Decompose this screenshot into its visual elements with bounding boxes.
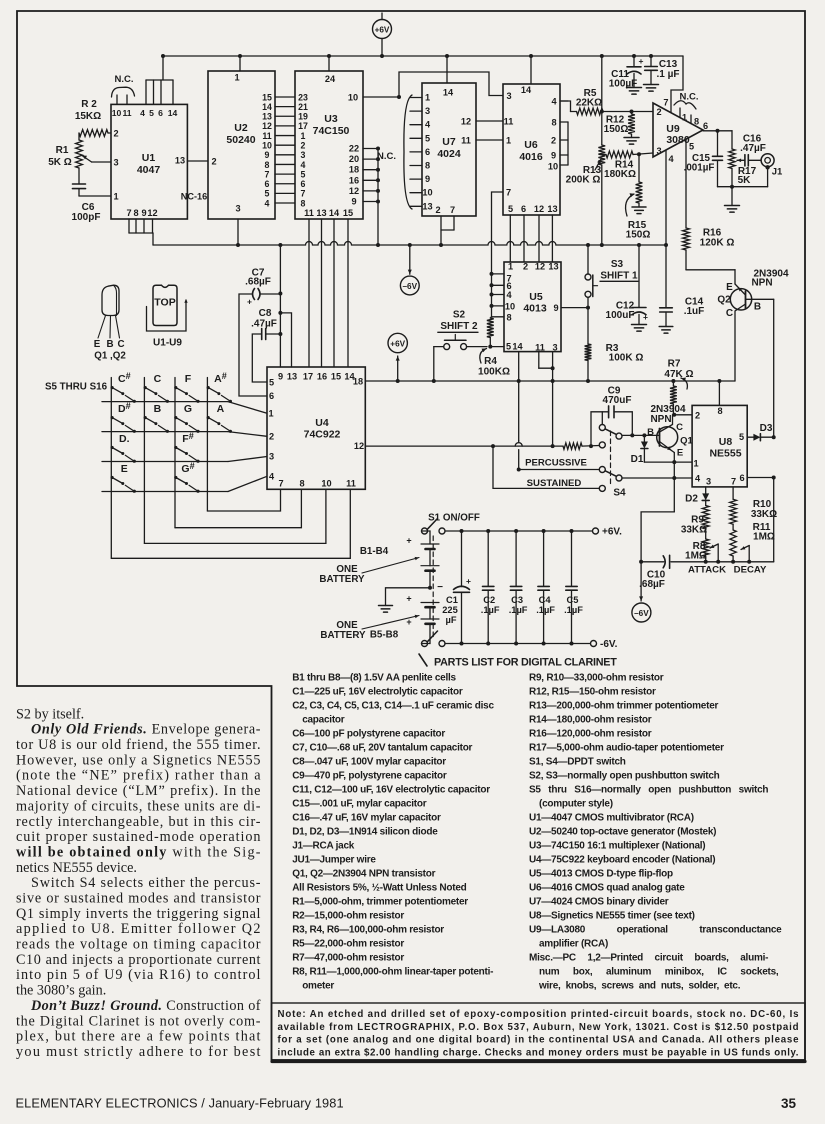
svg-text:G#: G# — [181, 461, 194, 475]
svg-text:R9, R10—33,000-ohm resistor: R9, R10—33,000-ohm resistor — [529, 673, 664, 684]
svg-text:.001µF: .001µF — [684, 163, 715, 174]
wire output ground rail — [718, 185, 768, 212]
wire keyboard col2 to U4 pin10 — [144, 489, 326, 543]
wires U2 outputs to U3 inputs — [262, 92, 295, 208]
svg-text:3: 3 — [425, 106, 430, 116]
op-amp U9 3080 — [653, 98, 708, 165]
keyboard switch G (S5-S16) — [174, 403, 199, 433]
svg-text:+6V: +6V — [375, 26, 390, 35]
svg-text:NPN: NPN — [751, 278, 772, 289]
node junction on +6V bus — [649, 54, 653, 58]
-6V supply circle (bottom) — [632, 562, 651, 622]
svg-text:R1—5,000-ohm, trimmer potentio: R1—5,000-ohm, trimmer potentiometer — [292, 897, 468, 908]
svg-text:cuit proper sustained-mode ope: cuit proper sustained-mode operation — [16, 829, 261, 845]
svg-text:16: 16 — [349, 175, 359, 185]
svg-text:+6V: +6V — [390, 340, 405, 349]
svg-text:18: 18 — [353, 376, 363, 386]
svg-text:U9—LA3080 operational transcon: U9—LA3080 operational transconductance — [529, 925, 782, 936]
svg-text:1: 1 — [425, 93, 430, 103]
wire U3 unused outputs tied to -6V — [363, 147, 380, 246]
svg-text:C#: C# — [118, 371, 131, 385]
resistor R3 — [585, 308, 644, 381]
svg-text:DECAY: DECAY — [734, 565, 767, 576]
svg-text:Note: An etched and drilled se: Note: An etched and drilled set of epoxy… — [278, 1009, 799, 1020]
battery center tap to ground — [379, 582, 444, 612]
svg-text:C11, C12—100 uF, 16V electroly: C11, C12—100 uF, 16V electrolytic capaci… — [292, 785, 490, 796]
svg-text:18: 18 — [349, 165, 359, 175]
svg-text:S2, S3—normally open pushbutto: S2, S3—normally open pushbutton switch — [529, 771, 720, 782]
capacitor C6 — [72, 168, 111, 223]
svg-text:11: 11 — [346, 478, 356, 488]
svg-text:2: 2 — [301, 140, 306, 150]
svg-text:D1: D1 — [631, 454, 644, 465]
svg-text:47K Ω: 47K Ω — [664, 369, 693, 380]
svg-text:5K: 5K — [738, 175, 752, 186]
svg-text:4: 4 — [269, 471, 275, 481]
svg-text:C3: C3 — [511, 595, 523, 605]
svg-text:7: 7 — [663, 98, 668, 108]
svg-text:R16—120,000-ohm resistor: R16—120,000-ohm resistor — [529, 729, 652, 740]
svg-text:2: 2 — [523, 262, 528, 272]
wire +6V output rail — [445, 527, 622, 538]
wire U6 pin7 control to R4 chain — [492, 192, 504, 274]
svg-text:8: 8 — [694, 117, 699, 127]
svg-text:13: 13 — [316, 208, 326, 218]
svg-text:8: 8 — [425, 161, 430, 171]
svg-text:17: 17 — [298, 121, 308, 131]
svg-text:applied to U8. Emitter followe: applied to U8. Emitter follower Q2 — [16, 921, 261, 937]
wire -6V output rail — [445, 639, 618, 650]
svg-text:100K Ω: 100K Ω — [609, 353, 644, 364]
svg-text:U2: U2 — [234, 122, 248, 134]
trimmer R1 — [48, 133, 111, 168]
svg-text:.1 µF: .1 µF — [657, 69, 680, 80]
svg-text:7: 7 — [450, 205, 455, 215]
svg-text:5: 5 — [301, 169, 306, 179]
wire U3 pin24 to +6V bus — [328, 56, 330, 71]
svg-text:10: 10 — [112, 108, 122, 118]
IC U3 74C150 multiplexer — [295, 71, 363, 219]
svg-text:13: 13 — [287, 372, 297, 382]
svg-text:+: + — [247, 297, 252, 307]
svg-text:15KΩ: 15KΩ — [75, 111, 101, 122]
transistor Q2 2N3904 — [717, 269, 789, 382]
svg-text:R 2: R 2 — [81, 99, 97, 110]
svg-text:8: 8 — [551, 118, 556, 128]
wire U2 pin1 to +6V bus — [239, 56, 241, 71]
svg-text:U6—4016 CMOS quad analog gate: U6—4016 CMOS quad analog gate — [529, 883, 685, 894]
svg-text:C8—.047 uF, 100V mylar capacit: C8—.047 uF, 100V mylar capacitor — [292, 757, 446, 768]
svg-text:7: 7 — [126, 208, 131, 218]
wire U6 pin14 to +6V bus — [530, 56, 532, 84]
svg-text:12: 12 — [461, 117, 471, 127]
resistor R2 — [75, 99, 111, 136]
svg-text:74C150: 74C150 — [313, 125, 350, 137]
svg-text:Q1 ,Q2: Q1 ,Q2 — [94, 351, 126, 362]
parts list left column — [292, 673, 494, 992]
svg-text:C1—225 uF, 16V electrolytic ca: C1—225 uF, 16V electrolytic capacitor — [292, 687, 463, 698]
diode D2 — [685, 487, 709, 505]
svg-text:120K Ω: 120K Ω — [700, 238, 735, 249]
wire U7 pin11 to U6 pin1 — [476, 139, 503, 141]
svg-text:C: C — [726, 308, 733, 319]
svg-text:4016: 4016 — [519, 151, 543, 163]
wire U5 pin14 to +6V rail and percussive feed — [515, 352, 522, 470]
svg-text:1: 1 — [268, 408, 273, 418]
IC U6 4016 quad analog gate — [503, 84, 560, 215]
svg-text:11: 11 — [262, 131, 271, 141]
svg-text:6: 6 — [703, 121, 708, 131]
svg-text:14: 14 — [329, 208, 340, 218]
svg-text:11: 11 — [461, 136, 471, 146]
keyboard switch A (S5-S16) — [207, 403, 232, 433]
node junction on -6V bus — [586, 243, 590, 247]
diode D1 — [631, 435, 648, 465]
switch S1 ON/OFF pole A — [422, 513, 480, 535]
svg-text:U8: U8 — [719, 436, 733, 448]
svg-text:150Ω: 150Ω — [604, 124, 629, 135]
node junction on -6V bus — [600, 243, 604, 247]
svg-text:U1: U1 — [142, 152, 156, 164]
svg-text:B: B — [754, 302, 761, 313]
svg-text:100uF: 100uF — [606, 310, 635, 321]
IC U5 4013 flip-flop — [504, 262, 561, 353]
svg-text:SUSTAINED: SUSTAINED — [527, 478, 582, 489]
node junction on +6V rail — [432, 379, 436, 383]
capacitor C10 — [639, 555, 670, 590]
svg-text:wire, knobs, screws and nuts,: wire, knobs, screws and nuts, solder, et… — [538, 981, 741, 992]
resistor R5 — [560, 88, 653, 115]
svg-text:All Resistors 5%, ½-Watt Unles: All Resistors 5%, ½-Watt Unless Noted — [292, 883, 466, 894]
node junction on +6V rail — [717, 379, 721, 383]
svg-text:tor U8 is our old friend, the: tor U8 is our old friend, the 555 timer. — [16, 737, 261, 753]
wire -6V bus — [153, 242, 666, 246]
svg-text:1MΩ: 1MΩ — [685, 551, 707, 562]
svg-text:3: 3 — [269, 452, 274, 462]
N.C. pins 1,8 of U9 — [674, 92, 699, 127]
svg-text:J1: J1 — [772, 167, 783, 178]
diode D3 — [747, 423, 776, 441]
svg-text:A#: A# — [214, 371, 227, 385]
svg-text:10: 10 — [548, 162, 558, 172]
svg-text:3: 3 — [656, 146, 661, 156]
svg-text:16: 16 — [317, 372, 327, 382]
svg-text:9: 9 — [141, 208, 146, 218]
transistor Q1 2N3904 — [647, 404, 693, 459]
svg-text:C8: C8 — [259, 308, 272, 319]
svg-text:R1: R1 — [56, 145, 69, 156]
svg-text:C2: C2 — [483, 595, 495, 605]
svg-text:10: 10 — [321, 478, 331, 488]
wire S4 common to emitter node — [622, 477, 674, 479]
svg-text:will be obtained only with the: will be obtained only with the Sig- — [16, 844, 261, 860]
svg-text:2: 2 — [269, 431, 274, 441]
svg-text:10: 10 — [262, 140, 272, 150]
svg-text:35: 35 — [781, 1096, 797, 1111]
svg-text:4: 4 — [506, 290, 512, 300]
wire row2 to U4 pin2 — [228, 432, 267, 437]
svg-text:4: 4 — [265, 198, 270, 208]
svg-text:20: 20 — [349, 154, 359, 164]
svg-text:E: E — [94, 339, 101, 350]
wire Q2 base down to D3/U8 area — [773, 299, 775, 437]
svg-text:PARTS LIST FOR DIGITAL CLARINE: PARTS LIST FOR DIGITAL CLARINET — [434, 657, 617, 669]
wire U9 pin4 to -6V bus — [665, 150, 667, 245]
svg-text:E: E — [677, 448, 683, 459]
wire +6V bus — [163, 55, 683, 57]
transistor package drawing Q1,Q2 — [94, 285, 127, 361]
svg-text:21: 21 — [298, 102, 308, 112]
svg-text:14: 14 — [512, 342, 523, 352]
svg-text:(note the “NE” prefix) rather: (note the “NE” prefix) rather than a — [16, 768, 261, 784]
svg-text:U1-U9: U1-U9 — [153, 338, 182, 349]
svg-text:.1µF: .1µF — [536, 605, 555, 615]
wire U8 pin6 to Q2 base line — [747, 476, 776, 480]
keyboard switch C (S5-S16) — [144, 373, 169, 403]
-6V supply circle — [400, 245, 419, 295]
svg-text:A: A — [217, 403, 225, 415]
node junction on -6V bus — [408, 243, 412, 247]
svg-text:7: 7 — [278, 478, 283, 488]
svg-text:100KΩ: 100KΩ — [478, 367, 510, 378]
svg-text:6: 6 — [301, 179, 306, 189]
wire S4 common net down to -6V — [641, 512, 674, 562]
potentiometer R8 attack — [685, 529, 718, 562]
wire U9 pin5 down to R16 — [685, 139, 687, 228]
svg-text:R14—180,000-ohm resistor: R14—180,000-ohm resistor — [529, 715, 652, 726]
svg-text:U4: U4 — [315, 417, 329, 429]
svg-text:13: 13 — [175, 156, 185, 166]
svg-text:Don’t Buzz! Ground. Constructi: Don’t Buzz! Ground. Construction of — [30, 998, 261, 1014]
parts list right column — [529, 673, 782, 992]
svg-text:J1—RCA jack: J1—RCA jack — [292, 841, 355, 852]
N.C. pins 10,11 of U1 — [112, 74, 135, 104]
svg-text:470uF: 470uF — [603, 395, 632, 406]
body text column — [16, 706, 261, 1060]
svg-text:R7—47,000-ohm resistor: R7—47,000-ohm resistor — [292, 953, 404, 964]
node junction on -6V bus — [439, 243, 443, 247]
svg-text:50240: 50240 — [226, 134, 255, 146]
svg-text:BATTERY: BATTERY — [319, 574, 365, 585]
svg-text:U6: U6 — [524, 139, 538, 151]
svg-text:the Digital Clarinet is not ov: the Digital Clarinet is not overly com- — [16, 1013, 261, 1029]
capacitor C13 to ground — [644, 56, 680, 91]
svg-text:ELEMENTARY ELECTRONICS / Janua: ELEMENTARY ELECTRONICS / January-Februar… — [16, 1096, 344, 1111]
wire Q1 collector to U8 pin2 — [672, 413, 692, 417]
svg-text:U7—4024 CMOS binary divider: U7—4024 CMOS binary divider — [529, 897, 669, 908]
svg-text:2: 2 — [113, 129, 118, 139]
capacitor C12 electrolytic to ground — [606, 245, 648, 331]
svg-text:1: 1 — [113, 192, 118, 202]
svg-text:µF: µF — [445, 615, 456, 625]
svg-text:sive or sustained modes and tr: sive or sustained modes and transistor — [16, 891, 261, 907]
svg-text:4047: 4047 — [137, 164, 161, 176]
wire U9 pin7 feed — [671, 56, 683, 113]
svg-text:+: + — [406, 594, 411, 604]
switch S4 pole 2 — [599, 467, 626, 499]
svg-text:11: 11 — [304, 208, 314, 218]
svg-text:plex, but there are a few poin: plex, but there are a few points that — [16, 1029, 261, 1045]
svg-text:D.: D. — [119, 433, 130, 445]
svg-text:C: C — [676, 422, 683, 433]
svg-text:33KΩ: 33KΩ — [681, 525, 707, 536]
svg-text:5K Ω: 5K Ω — [48, 157, 72, 168]
svg-text:10: 10 — [348, 93, 358, 103]
wire +6V switched rail (U4 pin18 across to Q2 collector) — [365, 380, 735, 382]
svg-text:E: E — [726, 282, 733, 293]
wire percussive line — [517, 458, 600, 472]
svg-text:6: 6 — [269, 391, 274, 401]
keyboard switch F (S5-S16) — [174, 373, 199, 403]
capacitor C2 — [481, 529, 500, 646]
svg-text:S2: S2 — [453, 310, 466, 321]
svg-text:15: 15 — [262, 92, 272, 102]
svg-text:6: 6 — [739, 473, 744, 483]
node junction on +6V rail — [586, 379, 590, 383]
keyboard switch A# (S5-S16) — [207, 371, 232, 403]
svg-text:9: 9 — [265, 150, 270, 160]
svg-text:6: 6 — [158, 108, 163, 118]
svg-text:19: 19 — [298, 112, 308, 122]
svg-text:4: 4 — [695, 474, 701, 484]
node junction on -6V bus — [637, 243, 641, 247]
wire Q1 base node — [622, 433, 660, 437]
svg-text:reads the voltage on timing ca: reads the voltage on timing capacitor — [16, 937, 261, 953]
node junction on +6V bus — [445, 54, 449, 58]
svg-text:1: 1 — [506, 136, 511, 146]
svg-text:2: 2 — [211, 157, 216, 167]
svg-text:C15—.001 uF, mylar capacitor: C15—.001 uF, mylar capacitor — [292, 799, 427, 810]
svg-text:5: 5 — [689, 142, 694, 152]
svg-text:8: 8 — [506, 312, 511, 322]
svg-text:8: 8 — [717, 406, 722, 416]
svg-text:11: 11 — [122, 108, 131, 118]
svg-text:5: 5 — [269, 378, 274, 388]
svg-text:C2, C3, C4, C5, C13, C14—.1 uF: C2, C3, C4, C5, C13, C14—.1 uF ceramic d… — [292, 701, 494, 712]
switch S4 pole 1 — [599, 412, 622, 448]
svg-text:+6V.: +6V. — [602, 527, 622, 538]
svg-text:amplifier (RCA): amplifier (RCA) — [539, 939, 608, 950]
wire U4 pin12 keyboard data line with R6 — [365, 443, 599, 449]
S4 gang dashed link — [610, 431, 612, 486]
svg-text:22: 22 — [349, 144, 359, 154]
svg-text:5: 5 — [425, 133, 430, 143]
svg-text:include an extra $2.00 handlin: include an extra $2.00 handling charge. … — [278, 1047, 799, 1058]
svg-text:Q1, Q2—2N3904 NPN transistor: Q1, Q2—2N3904 NPN transistor — [292, 869, 435, 880]
svg-text:+: + — [466, 576, 471, 586]
svg-text:5: 5 — [739, 432, 744, 442]
svg-text:ATTACK: ATTACK — [688, 565, 726, 576]
svg-text:11: 11 — [504, 117, 514, 127]
node junction on -6V bus — [236, 243, 240, 247]
battery B1-B4 — [360, 531, 439, 588]
svg-text:180KΩ: 180KΩ — [604, 169, 636, 180]
svg-text:8: 8 — [301, 198, 306, 208]
keyboard row wires — [102, 401, 228, 403]
svg-text:U5: U5 — [529, 291, 543, 303]
capacitor C4 — [536, 529, 555, 646]
svg-text:1: 1 — [234, 73, 239, 83]
svg-text:2: 2 — [435, 205, 440, 215]
svg-text:15: 15 — [331, 372, 341, 382]
svg-text:C6—100 pF polystyrene capacito: C6—100 pF polystyrene capacitor — [292, 729, 445, 740]
svg-text:U3: U3 — [324, 113, 338, 125]
svg-text:NPN: NPN — [650, 414, 671, 425]
svg-text:R5—22,000-ohm resistor: R5—22,000-ohm resistor — [292, 939, 404, 950]
wire U1 pins 7,8,9,12 to -6V bus — [129, 219, 153, 245]
svg-text:.1uF: .1uF — [684, 306, 705, 317]
svg-text:12: 12 — [535, 262, 545, 272]
svg-text:C9—470 pF, polystyrene capacit: C9—470 pF, polystyrene capacitor — [292, 771, 447, 782]
svg-text:B1 thru B8—(8) 1.5V AA penlite: B1 thru B8—(8) 1.5V AA penlite cells — [292, 673, 456, 684]
svg-text:TOP: TOP — [154, 297, 175, 309]
wire row3 to U4 pin3 — [228, 457, 267, 462]
svg-text:However, use only a Signetics: However, use only a Signetics NE555 — [16, 752, 261, 768]
svg-text:5: 5 — [506, 342, 511, 352]
svg-text:the 3080’s gain.: the 3080’s gain. — [16, 983, 106, 999]
resistor R9 — [681, 500, 709, 535]
svg-text:4: 4 — [551, 97, 557, 107]
svg-text:N.C.: N.C. — [377, 151, 396, 162]
wire U9 output node — [703, 129, 732, 133]
svg-text:100pF: 100pF — [72, 212, 101, 223]
pushbutton S2 SHIFT 2 — [434, 310, 504, 382]
svg-text:C4: C4 — [539, 595, 552, 605]
capacitor C1 electrolytic — [442, 529, 471, 646]
wire U7 pin12 to U6 pin11 — [476, 120, 503, 122]
svg-text:200K Ω: 200K Ω — [566, 175, 601, 186]
svg-text:BATTERY: BATTERY — [320, 630, 366, 641]
svg-text:ometer: ometer — [302, 981, 334, 992]
node junction on -6V bus — [664, 243, 668, 247]
S1 gang dashed link — [432, 536, 434, 637]
svg-text:.1µF: .1µF — [564, 605, 583, 615]
node junction on +6V bus — [529, 54, 533, 58]
wire U5 pin9 to S3/R3 node — [561, 306, 590, 310]
svg-text:NE555: NE555 — [709, 448, 741, 460]
svg-text:B: B — [154, 403, 162, 415]
svg-text:2: 2 — [551, 136, 556, 146]
svg-text:3: 3 — [506, 91, 511, 101]
capacitor C8 — [251, 308, 280, 382]
wires U6 outputs down to U5 — [509, 215, 511, 262]
svg-text:7: 7 — [731, 477, 736, 487]
wire Q1 emitter chain to U8 pins 1,4 — [644, 453, 692, 512]
svg-text:S3: S3 — [611, 259, 624, 270]
resistor R7 — [664, 359, 693, 415]
svg-text:majority of circuits, these un: majority of circuits, these units are di… — [16, 798, 261, 814]
svg-text:4: 4 — [140, 108, 145, 118]
wire attack-decay rail — [671, 478, 774, 576]
svg-text:14: 14 — [443, 88, 454, 98]
svg-text:into pin 5 of U9 (via R16) to: into pin 5 of U9 (via R16) to control — [16, 967, 261, 983]
node junction on +6V rail — [551, 379, 555, 383]
svg-text:9: 9 — [425, 174, 430, 184]
svg-text:3: 3 — [301, 150, 306, 160]
svg-text:U8—Signetics NE555 timer (see: U8—Signetics NE555 timer (see text) — [529, 911, 695, 922]
label ONE BATTERY lower — [320, 615, 419, 641]
svg-text:U2—50240 top-octave generator: U2—50240 top-octave generator (Mostek) — [529, 827, 716, 838]
keyboard switch D. (S5-S16) — [111, 433, 136, 463]
svg-text:C: C — [117, 339, 124, 350]
svg-text:6: 6 — [265, 179, 270, 189]
svg-text:9: 9 — [551, 151, 556, 161]
svg-text:R17—5,000-ohm audio-taper pote: R17—5,000-ohm audio-taper potentiometer — [529, 743, 724, 754]
svg-text:7: 7 — [265, 169, 270, 179]
svg-text:.1µF: .1µF — [481, 605, 500, 615]
svg-text:Q1 simply inverts the triggeri: Q1 simply inverts the triggering signal — [16, 906, 261, 922]
keyboard switch F# (S5-S16) — [174, 431, 199, 463]
